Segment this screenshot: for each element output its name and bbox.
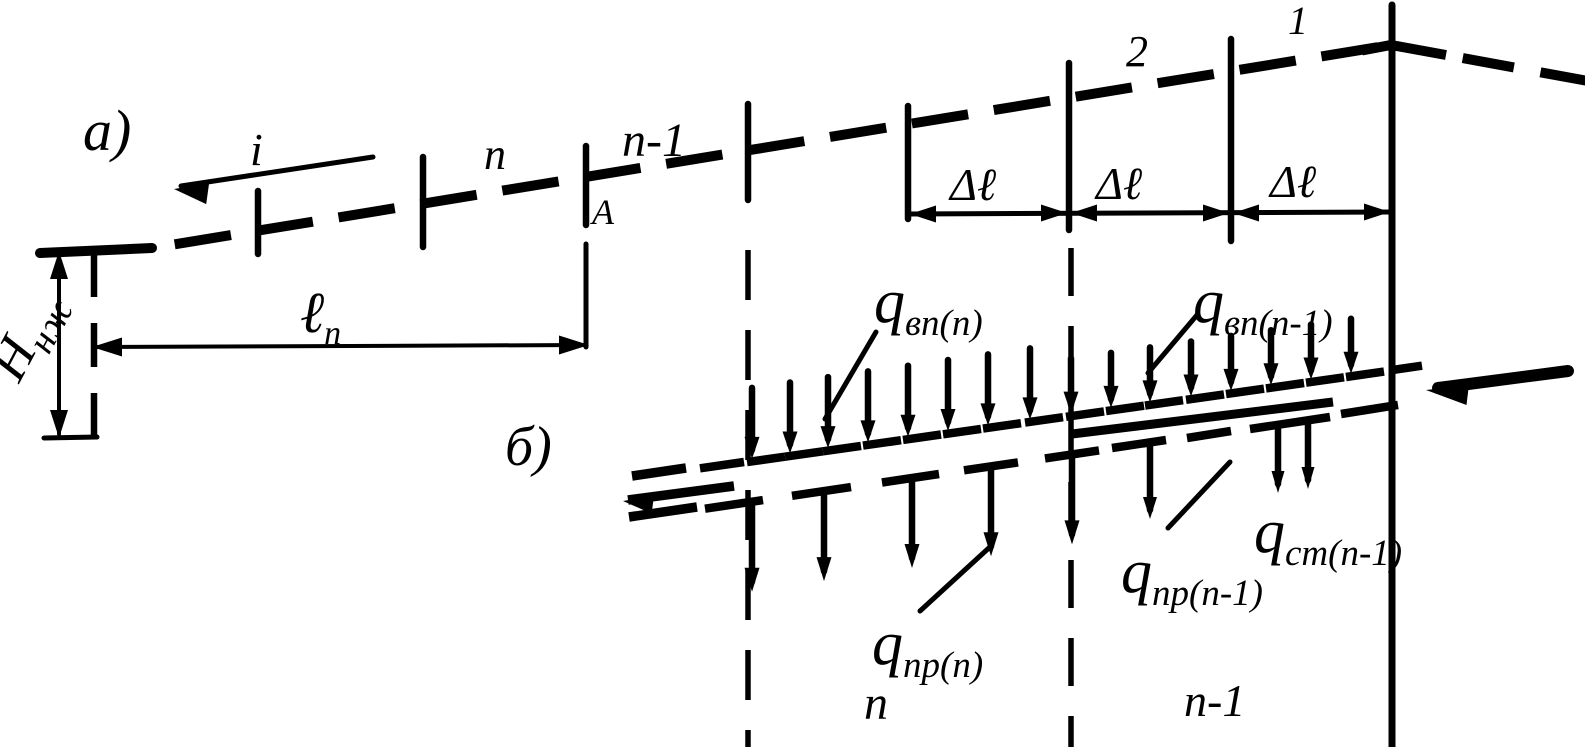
tick mark 2 on profile: [420, 157, 427, 247]
load arrow q_pr(n-1) T: [1112, 440, 1166, 448]
load arrow q_vp down #4: [865, 371, 872, 433]
tick mark 5 on profile: [905, 106, 912, 219]
svg-text:Δℓ: Δℓ: [1094, 158, 1143, 209]
load arrow q_vp down #1: [749, 388, 756, 450]
svg-text:a): a): [83, 98, 131, 163]
svg-text:n-1: n-1: [622, 114, 686, 167]
load arrow q_vp down #7: [985, 354, 992, 416]
dashed vertical section line n (x=748): [745, 250, 751, 747]
tick mark 6 on profile (section 2): [1066, 63, 1073, 230]
load arrow q_pr down #4: [964, 462, 1018, 470]
load arrow q_vp down #3: [825, 377, 832, 439]
leader line q_vp(n-1): [1148, 315, 1197, 373]
svg-text:A: A: [590, 192, 615, 232]
leader line q_vp(n): [825, 332, 876, 419]
load arrow q_vp down #11: [1147, 347, 1154, 393]
load arrow q_st down #2: [1305, 420, 1312, 480]
load arrow q_vp down #12: [1188, 342, 1195, 388]
profile dash across peak: [1362, 45, 1446, 55]
load arrow q_vp down #6: [945, 360, 952, 422]
pipe top line dash right of section line: [1393, 366, 1422, 370]
delta-l arrow at x1392: [1364, 204, 1390, 221]
delta-l arrows at x1231 right: [1233, 205, 1259, 222]
dimension line delta-l horizontal: [908, 212, 1392, 214]
load arrow q_vp down #14: [1268, 330, 1275, 376]
svg-text:1: 1: [1288, 0, 1308, 43]
load arrow q_st down #1: [1275, 424, 1282, 484]
long vertical section line at peak: [1389, 5, 1396, 747]
load arrow q_vp down #2: [787, 383, 794, 445]
dimension l_n left arrow: [92, 338, 122, 357]
tick mark A on profile: [583, 146, 590, 225]
svg-text:i: i: [250, 124, 263, 175]
pipe bottom line dash near right section line: [1341, 405, 1398, 414]
svg-text:n: n: [864, 677, 888, 730]
profile ground dashed line descending right of peak: [1446, 55, 1585, 81]
profile ground dashed line ascending: [152, 45, 1391, 248]
pipe bottom line bar for right T arrows: [1250, 417, 1330, 429]
svg-text:б): б): [505, 416, 552, 478]
dashed extension line below profile start: [91, 253, 98, 443]
load arrow q_vp down #5: [905, 366, 912, 428]
slope arrow head: [174, 183, 209, 204]
svg-text:n: n: [484, 130, 506, 179]
delta-l arrows at x1069 left: [1041, 205, 1067, 222]
extension line below point A: [584, 244, 589, 347]
pipe top line leading dash: [700, 462, 744, 468]
dashed vertical section line n-1 (x=1071): [1068, 248, 1074, 747]
svg-text:Δℓ: Δℓ: [948, 159, 997, 210]
tick mark 1 on profile: [255, 191, 262, 254]
svg-text:2: 2: [1126, 27, 1148, 76]
dimension line H vertical: [57, 253, 61, 434]
delta-l arrow at x908: [910, 206, 936, 223]
load arrow q_pr down #5: [1045, 450, 1099, 458]
svg-text:Δℓ: Δℓ: [1268, 156, 1317, 207]
profile ground line solid start: [40, 248, 152, 253]
flow mark lower dash left: [629, 507, 697, 517]
flow arrow shaft right: [1438, 371, 1568, 388]
leader line q_pr(n-1): [1168, 462, 1230, 528]
pipe bottom line dash in n-1: [1187, 431, 1231, 438]
svg-text:n-1: n-1: [1184, 675, 1245, 726]
load arrow q_vp down #10: [1108, 353, 1115, 399]
dimension H top arrow: [50, 251, 68, 279]
flow mark upper dash left: [632, 468, 686, 476]
load arrow q_vp down #8: [1027, 348, 1034, 410]
dimension H bottom arrow: [50, 410, 68, 438]
flow arrow head left: [623, 496, 654, 514]
load arrow q_vp down #16: [1348, 319, 1355, 365]
tick mark 7 on profile (section 1): [1228, 39, 1235, 241]
load arrow q_pr down #1: [705, 500, 763, 509]
leader line q_pr(n): [920, 546, 991, 611]
flow arrow shaft left: [628, 486, 734, 500]
slope arrow line i: [181, 157, 373, 186]
load arrow q_vp down #9: [1068, 359, 1075, 405]
tick mark 4 on profile (section n boundary): [745, 104, 752, 200]
dimension H bottom tick line: [44, 437, 97, 438]
delta-l arrows at x1231 left: [1203, 205, 1229, 222]
load arrow q_pr down #2: [792, 487, 851, 496]
load arrow q_vp down #15: [1308, 325, 1315, 371]
dimension l_n right arrow: [559, 336, 589, 355]
pipe solid line in section n-1: [1072, 402, 1333, 434]
dimension line l_n horizontal: [96, 345, 585, 347]
delta-l arrows at x1069 right: [1071, 205, 1097, 222]
flow arrow head right: [1426, 385, 1469, 405]
load arrow q_pr down #3: [882, 474, 939, 483]
load arrow q_vp down #13: [1228, 336, 1235, 382]
